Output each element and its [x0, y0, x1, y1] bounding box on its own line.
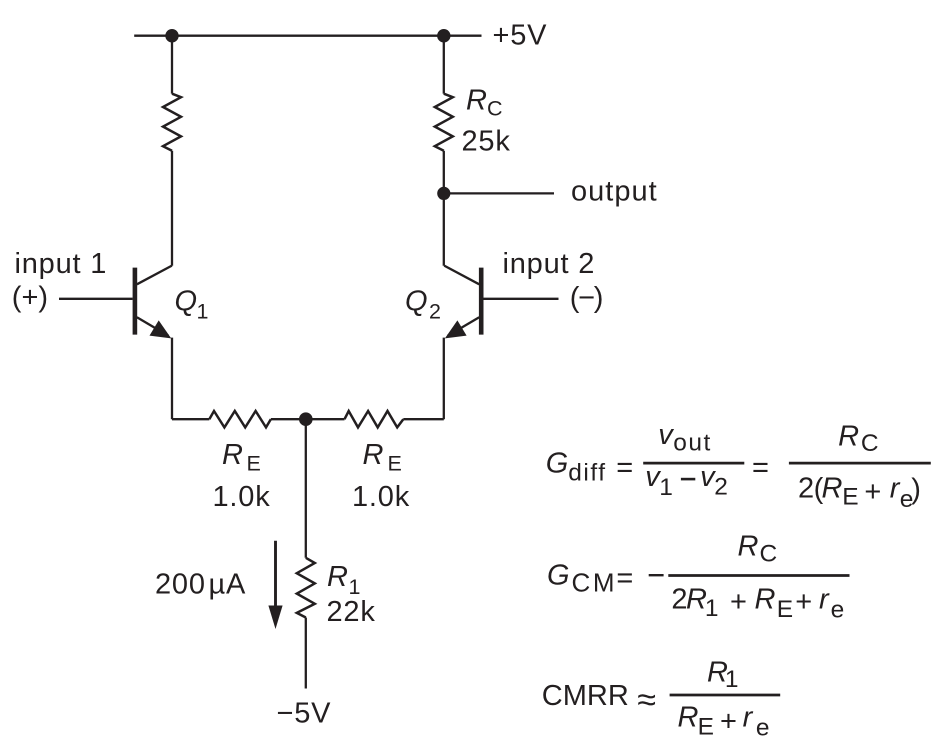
label RC — [466, 85, 504, 121]
svg-text:r: r — [743, 702, 754, 734]
svg-text:): ) — [911, 473, 921, 505]
svg-text:=: = — [752, 452, 770, 484]
label 1.0k right — [352, 481, 410, 513]
label input 1 — [15, 248, 108, 280]
resistor RE left — [209, 411, 270, 427]
label Q2 — [405, 285, 443, 323]
transistor Q1 — [135, 266, 172, 339]
svg-text:C: C — [760, 540, 779, 567]
wire emitter bus left segment — [172, 418, 209, 420]
svg-text:22k: 22k — [327, 596, 376, 628]
formula Gdiff — [546, 419, 931, 513]
svg-text:G: G — [547, 559, 570, 591]
svg-text:1: 1 — [705, 595, 720, 622]
wire RC bottom to Q2 collector through output node — [443, 151, 445, 266]
svg-text:Q: Q — [175, 285, 198, 317]
node junction +5V left — [165, 29, 178, 42]
svg-text:25k: 25k — [462, 125, 511, 157]
label RE left — [222, 439, 262, 475]
wire R1 bottom to -5V — [305, 618, 307, 689]
svg-text:+: + — [720, 705, 738, 737]
svg-text:E: E — [247, 451, 263, 475]
svg-text:µA: µA — [209, 569, 247, 601]
label -5V — [277, 698, 332, 730]
label (-) — [570, 282, 602, 314]
resistor RE right — [345, 411, 404, 427]
label 25k — [462, 125, 511, 157]
svg-text:E: E — [388, 451, 404, 475]
label output — [571, 176, 658, 208]
svg-text:(+): (+) — [12, 282, 48, 314]
wire RE right to Q2 emitter — [403, 418, 444, 420]
svg-text:CMRR: CMRR — [542, 680, 629, 712]
svg-text:+: + — [864, 476, 882, 508]
wire RE left to center node — [271, 418, 306, 420]
svg-text:1: 1 — [659, 474, 674, 501]
svg-text:C: C — [861, 430, 880, 457]
svg-text:diff: diff — [568, 460, 606, 487]
svg-text:R: R — [838, 420, 860, 452]
svg-text:+: + — [730, 586, 748, 618]
svg-text:R: R — [363, 439, 385, 471]
resistor R1 — [297, 558, 315, 618]
svg-text:2: 2 — [798, 473, 815, 505]
svg-text:=: = — [616, 452, 634, 484]
svg-text:R: R — [327, 561, 349, 593]
svg-text:+: + — [795, 586, 813, 618]
svg-text:r: r — [819, 584, 830, 616]
label 1.0k left — [213, 481, 271, 513]
label 22k — [327, 596, 376, 628]
svg-text:+5V: +5V — [493, 20, 548, 52]
wire tail node down to R1 — [305, 419, 307, 558]
svg-text:1: 1 — [725, 666, 740, 693]
transistor Q2 — [444, 266, 481, 339]
node emitter center junction — [299, 412, 313, 426]
svg-text:1: 1 — [197, 299, 211, 323]
svg-text:C: C — [487, 97, 504, 121]
svg-text:E: E — [777, 596, 795, 623]
svg-text:E: E — [842, 484, 860, 511]
svg-text:CM: CM — [572, 567, 618, 597]
svg-text:input 1: input 1 — [15, 248, 108, 280]
svg-text:Q: Q — [405, 285, 428, 317]
wire output stub — [444, 192, 554, 194]
label RE right — [363, 439, 404, 475]
svg-text:2: 2 — [429, 299, 443, 323]
wire input 1 to Q1 base — [59, 298, 133, 300]
svg-text:−5V: −5V — [277, 698, 332, 730]
svg-text:R: R — [755, 584, 777, 616]
svg-text:output: output — [571, 176, 658, 208]
svg-text:G: G — [546, 447, 569, 479]
svg-text:≈: ≈ — [637, 681, 656, 719]
svg-text:R: R — [822, 472, 844, 504]
svg-text:R: R — [222, 439, 244, 471]
formula CMRR — [542, 657, 780, 742]
wire left branch top lead — [171, 36, 173, 94]
svg-text:v: v — [658, 419, 674, 451]
wire left resistor bottom to Q1 collector — [171, 151, 173, 266]
svg-text:(−): (−) — [570, 282, 602, 314]
label 200 uA — [155, 569, 246, 601]
svg-text:R: R — [466, 85, 488, 117]
svg-text:e: e — [831, 596, 846, 623]
wire RC top lead — [443, 36, 445, 94]
svg-text:input 2: input 2 — [503, 248, 596, 280]
label +5V — [493, 20, 548, 52]
node output junction — [437, 187, 450, 200]
label Q1 — [175, 285, 211, 323]
svg-text:out: out — [673, 430, 712, 457]
svg-text:E: E — [698, 713, 716, 740]
label input 2 — [503, 248, 596, 280]
wire Q2 emitter down — [443, 338, 445, 420]
node junction +5V right — [437, 29, 450, 42]
wire +5V supply rail — [134, 35, 481, 37]
svg-text:1.0k: 1.0k — [213, 481, 271, 513]
label R1 — [327, 561, 362, 599]
svg-text:2: 2 — [714, 474, 729, 501]
svg-text:e: e — [756, 715, 771, 742]
svg-text:200: 200 — [155, 569, 206, 601]
formula GCM — [547, 530, 850, 623]
wire Q1 emitter down — [171, 338, 173, 420]
current arrow 200uA — [268, 541, 282, 629]
svg-text:R: R — [738, 530, 760, 562]
label (+) — [12, 282, 48, 314]
wire center node to RE right — [306, 418, 345, 420]
svg-text:=: = — [616, 563, 634, 595]
wire Q2 base to input 2 — [484, 298, 559, 300]
resistor left collector load (unlabeled) — [163, 94, 181, 151]
resistor RC — [435, 94, 453, 151]
svg-text:1.0k: 1.0k — [352, 481, 410, 513]
svg-text:R: R — [678, 702, 700, 734]
